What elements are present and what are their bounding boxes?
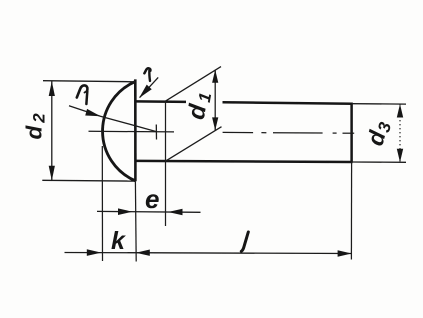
e dimension line with outside tails [97, 210, 201, 213]
e right extension line [165, 102, 167, 226]
d1 oblique extension line (bottom) [166, 127, 222, 161]
l right extension line (shank end) [350, 163, 352, 260]
arrow e right (outside, pointing left) [168, 209, 183, 216]
head radius center tick [155, 125, 157, 140]
arrow r1 on arc [85, 109, 101, 120]
arrow d3 top [397, 104, 403, 118]
rivet head: flat back face [134, 79, 137, 181]
d1 oblique extension line (top) [165, 67, 222, 102]
shank end face [350, 103, 353, 163]
arrow r at head-shank fillet [137, 85, 152, 101]
arrow k left (outside, pointing right) [87, 249, 102, 256]
d2 dimension line [51, 81, 53, 180]
shank top edge (left of d1 label gap) [135, 100, 186, 103]
arrowheads [49, 70, 404, 257]
label d2 (rotated) [22, 110, 49, 139]
arrow l left / k right (pointing left) [136, 250, 150, 256]
r1 leader line (through arc to radius center) [69, 106, 156, 132]
svg-text:k: k [111, 227, 126, 255]
svg-text:d1: d1 [183, 86, 216, 122]
label r1 [77, 85, 88, 104]
d3 bottom extension line [353, 161, 406, 163]
k + l dimension line [65, 253, 352, 254]
svg-text:d3: d3 [362, 117, 396, 149]
d3 top extension line [353, 103, 406, 105]
svg-text:e: e [145, 184, 159, 214]
label r [144, 68, 150, 81]
head-back extension line (e left / k right / l left) [134, 181, 137, 261]
shank bottom edge [135, 161, 352, 162]
d3 dimension line [399, 104, 401, 162]
d2 top extension line [43, 81, 135, 82]
r leader line [140, 77, 159, 97]
arrow e left (outside, pointing right) [118, 208, 133, 215]
label d3 (rotated) [362, 117, 396, 149]
centerline (dash-dot axis) [89, 131, 355, 133]
k left extension line (head apex) [101, 146, 103, 261]
svg-text:d2: d2 [22, 110, 49, 139]
rivet head: spherical arc [103, 82, 136, 181]
d2 bottom extension line [42, 179, 135, 182]
label l [241, 232, 248, 251]
arrow d2 top [49, 81, 55, 96]
label d1 (rotated) [183, 86, 216, 122]
d1 dimension line [214, 70, 216, 131]
arrow d1 top [212, 70, 218, 83]
shank top edge (right of d1 label gap) [223, 102, 353, 103]
arrow d1 bottom [212, 117, 218, 130]
arrow l right (pointing right) [338, 250, 352, 256]
arrow d3 bottom [397, 149, 403, 163]
arrow d2 bottom [49, 166, 55, 181]
